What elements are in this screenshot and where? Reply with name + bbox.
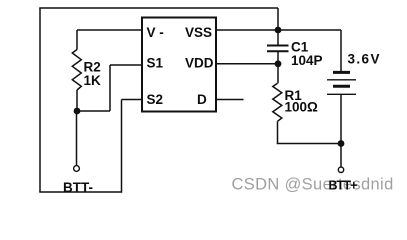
svg-text:104P: 104P <box>291 53 323 68</box>
wire D stub <box>216 99 244 101</box>
svg-text:CSDN @Suertesdnid: CSDN @Suertesdnid <box>232 176 394 194</box>
wire VDD to node <box>216 63 278 65</box>
svg-text:V -: V - <box>147 25 164 40</box>
svg-text:S1: S1 <box>147 56 164 71</box>
terminal BTT- circle <box>74 166 80 172</box>
node VDD junction <box>275 60 282 67</box>
wire S2 to IC <box>122 99 143 101</box>
svg-text:BTT+: BTT+ <box>329 179 358 193</box>
wire left frame <box>39 8 41 192</box>
terminal BTT+ circle <box>338 167 343 172</box>
wire R2 bottom <box>76 90 78 111</box>
wire R2 top drop <box>76 30 78 50</box>
wire battery top drop <box>340 30 342 71</box>
wire node to R1 top <box>277 64 279 84</box>
wire node to battery top <box>278 29 341 31</box>
resistor R2 <box>72 50 81 91</box>
node battery bottom junction <box>338 140 345 147</box>
wire battery bottom <box>340 94 342 143</box>
svg-text:S2: S2 <box>147 92 164 107</box>
wire R1 bottom drop <box>277 121 279 143</box>
wire V- to IC <box>77 29 142 31</box>
op-amp U1 IC body <box>142 18 216 112</box>
wire node to C1 top <box>277 30 279 46</box>
wire bottom frame <box>39 191 121 193</box>
wire S1 drop <box>109 65 111 111</box>
capacitor C1 <box>267 46 289 52</box>
svg-text:100Ω: 100Ω <box>285 100 319 115</box>
svg-text:VDD: VDD <box>185 56 214 71</box>
node junction R2/S1 <box>74 108 81 115</box>
label R2 value <box>84 60 102 89</box>
svg-text:D: D <box>197 92 207 107</box>
wire S1 to IC <box>110 64 142 66</box>
wire BTT- drop <box>76 111 78 166</box>
wire right drop to VSS node <box>277 8 279 30</box>
svg-text:VSS: VSS <box>185 25 212 40</box>
svg-text:1K: 1K <box>84 73 102 88</box>
wire VSS to node <box>216 29 278 31</box>
battery BT1 3.6V <box>327 72 356 94</box>
wire top frame <box>39 7 278 9</box>
wire BTT+ drop <box>340 144 342 168</box>
wire S2 drop <box>121 100 123 193</box>
wire R1 to battery node <box>277 143 341 145</box>
node VSS junction <box>275 27 282 34</box>
svg-text:BTT-: BTT- <box>63 180 93 195</box>
wire C1 bottom to node <box>277 51 279 64</box>
label C1 value <box>291 40 323 69</box>
label R1 value <box>285 88 319 115</box>
resistor R1 <box>273 83 282 121</box>
svg-text:3.6V: 3.6V <box>348 52 381 67</box>
wire junction to S1 drop <box>77 110 110 112</box>
